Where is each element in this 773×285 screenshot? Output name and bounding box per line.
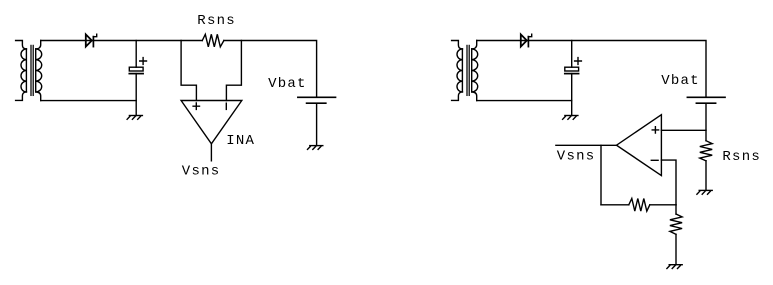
svg-text:Vsns: Vsns xyxy=(557,149,596,165)
diode D1 (left circuit) xyxy=(86,34,97,46)
svg-text:Vbat: Vbat xyxy=(661,73,700,89)
svg-text:Rsns: Rsns xyxy=(722,149,761,165)
wire op-amp + input (node at battery/Rsns junction) xyxy=(661,129,706,131)
wire top rail right circuit xyxy=(477,41,706,98)
ground (below C1) xyxy=(127,116,142,120)
battery Vbat (left circuit) xyxy=(298,97,336,145)
wire Rsns to battery corner xyxy=(224,41,317,98)
svg-text:INA: INA xyxy=(226,133,255,149)
op-amp U1 INA (left circuit) xyxy=(181,101,242,144)
op-amp U2 (right circuit) xyxy=(617,115,662,176)
svg-text:Vsns: Vsns xyxy=(182,164,221,180)
ground (below left battery) xyxy=(308,146,323,150)
ground (below right Rsns) xyxy=(697,190,712,194)
wire bottom rail right circuit xyxy=(477,100,572,102)
capacitor C1 (left circuit, polarized) xyxy=(129,41,146,116)
transformer T2 (right circuit) xyxy=(452,41,478,101)
wire INA right input tap xyxy=(226,41,241,101)
capacitor C2 (right circuit, polarized) xyxy=(565,41,582,116)
ground (below C2) xyxy=(563,116,578,120)
wire node to gain resistor xyxy=(675,205,677,214)
resistor to ground (right circuit, vertical) xyxy=(670,214,682,234)
wire gain resistor to ground xyxy=(675,234,677,264)
wire feedback resistor to node xyxy=(650,204,676,206)
wire feedback bottom left segment xyxy=(601,204,629,206)
svg-text:Rsns: Rsns xyxy=(197,13,236,29)
wire top rail left circuit (transformer to Rsns) xyxy=(41,40,203,42)
battery Vbat (right circuit) xyxy=(687,97,725,140)
wire INA left input tap xyxy=(181,41,196,101)
resistor Rsns (left circuit) xyxy=(202,34,224,47)
wire INA output xyxy=(210,144,212,161)
wire op-amp - input xyxy=(661,160,676,205)
resistor feedback (horizontal) xyxy=(629,199,650,212)
wire Rsns to ground xyxy=(705,161,707,191)
wire op-amp output to Vsns xyxy=(556,144,617,146)
ground (below gain resistor) xyxy=(667,265,682,269)
resistor Rsns (right circuit, vertical) xyxy=(700,141,712,161)
diode D2 (right circuit) xyxy=(521,34,532,46)
svg-text:Vbat: Vbat xyxy=(268,76,307,92)
wire output feedback drop xyxy=(600,145,602,205)
wire bottom rail left circuit xyxy=(41,100,137,102)
transformer T1 (left circuit) xyxy=(16,41,42,101)
